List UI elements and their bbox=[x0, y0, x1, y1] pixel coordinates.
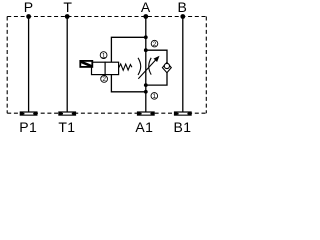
svg-text:T1: T1 bbox=[58, 119, 75, 135]
solenoid actuator of V1 bbox=[80, 61, 92, 67]
wire valve pilot (valve top to node A) bbox=[111, 37, 145, 62]
svg-text:2: 2 bbox=[102, 76, 106, 83]
svg-text:1: 1 bbox=[102, 52, 106, 59]
pin 1 label (valve port circled 1) bbox=[100, 52, 107, 60]
svg-text:B1: B1 bbox=[174, 119, 192, 135]
node cartridge bottom junction bbox=[144, 83, 148, 87]
solenoid valve V1 (2-position boxes) bbox=[92, 62, 119, 74]
node cartridge top junction bbox=[144, 48, 148, 52]
node valve-drain/A junction bbox=[144, 90, 148, 94]
node B (junction dot) bbox=[180, 14, 185, 19]
throttle (variable restrictor) arcs on wire A bbox=[138, 58, 151, 75]
pin 1 label (cartridge port circled 1) bbox=[151, 93, 158, 101]
pin 2 label (cartridge port circled 2) bbox=[151, 40, 158, 48]
flow-control cartridge envelope (check valve branch box) bbox=[146, 50, 167, 85]
port B1 subplate connection bbox=[174, 111, 192, 115]
node valve-pilot/A junction bbox=[144, 35, 148, 39]
svg-text:A1: A1 bbox=[135, 119, 153, 135]
wire A line bbox=[145, 17, 147, 112]
svg-text:2: 2 bbox=[153, 41, 157, 48]
node T (junction dot) bbox=[65, 14, 70, 19]
node A (junction dot) bbox=[143, 14, 148, 19]
port A1 subplate connection bbox=[137, 111, 155, 115]
check valve CV1 (ball in seat) bbox=[162, 62, 171, 72]
svg-text:P1: P1 bbox=[19, 119, 37, 135]
port P1 subplate connection bbox=[20, 111, 38, 115]
node P (junction dot) bbox=[26, 14, 31, 19]
svg-text:1: 1 bbox=[153, 93, 157, 100]
svg-text:A: A bbox=[141, 0, 151, 15]
wire valve drain (valve bottom to node A) bbox=[111, 75, 145, 92]
wire P line bbox=[28, 17, 30, 112]
spring return of V1 bbox=[119, 64, 132, 70]
wire B line bbox=[182, 17, 184, 112]
manifold enclosure (dashed envelope) bbox=[7, 17, 206, 114]
pin 2 label (valve port circled 2) bbox=[101, 76, 108, 84]
svg-text:B: B bbox=[178, 0, 187, 15]
svg-text:P: P bbox=[24, 0, 33, 15]
port T1 subplate connection bbox=[58, 111, 76, 115]
variable adjustment arrow of throttle bbox=[138, 56, 159, 79]
svg-text:T: T bbox=[63, 0, 72, 15]
wire T line bbox=[66, 17, 68, 112]
